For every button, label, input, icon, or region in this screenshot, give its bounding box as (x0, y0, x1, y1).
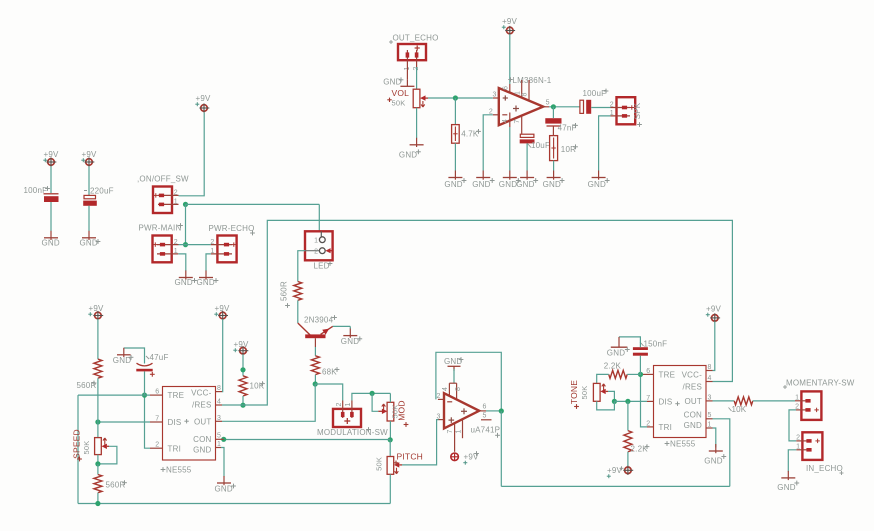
wire +9V to R 560R (97, 319, 99, 359)
capacitor C 100uF (output, polarized) (580, 100, 591, 114)
connector OUT_ECHO (389, 34, 439, 61)
pin label 3 (right) (708, 394, 712, 401)
svg-text:OUT: OUT (685, 397, 703, 406)
wire VOL bottom to ground (416, 108, 418, 139)
svg-text:150nF: 150nF (644, 339, 668, 348)
node junction TRE (right) (638, 372, 643, 377)
svg-text:+9V: +9V (44, 150, 60, 159)
pin stub DIS (7) (150, 421, 163, 423)
pin label 1 (PWR-MAIN) (174, 248, 178, 255)
pin label 1 (LM386) (514, 91, 521, 95)
svg-text:CON: CON (684, 411, 702, 420)
pin stub VCC (8) (216, 391, 223, 393)
wire SPK pin1 to ground (599, 116, 611, 171)
svg-text:LM386N-1: LM386N-1 (513, 76, 552, 85)
svg-text:50K: 50K (392, 98, 406, 107)
ground (IN_ECHO) (777, 471, 799, 492)
value label 2.2K (TRE) (604, 362, 622, 371)
pin label 2 (ON/OFF_SW) (174, 190, 178, 197)
wire junction to MOD wiper arm (372, 393, 378, 411)
value label 47uF (146, 353, 169, 362)
pin stub TRI (2) (150, 447, 163, 449)
svg-text:/RES: /RES (683, 383, 702, 392)
wire 2.2K to +9V (627, 452, 629, 466)
pin stub 2 (LM386 -IN) (493, 114, 499, 116)
svg-text:6: 6 (503, 86, 510, 90)
svg-text:5: 5 (217, 432, 221, 439)
pin label 4 (uA741) (442, 387, 449, 391)
svg-text:560R: 560R (280, 281, 289, 301)
pin label 3 (LM386) (493, 92, 497, 99)
pin label 6 (right) (646, 368, 650, 375)
wire 47uF to ground (124, 348, 145, 364)
wire 150nF to TRE junction (639, 356, 641, 375)
node junction TONE wiper (612, 399, 617, 404)
wire 150nF to ground (619, 337, 640, 347)
wire +9V to VCC pin 8 (221, 319, 224, 392)
value label 100uF (583, 89, 609, 98)
svg-text:1: 1 (174, 248, 178, 255)
ground (VOL) (399, 138, 424, 160)
svg-text:PWR-ECHO: PWR-ECHO (209, 224, 255, 233)
svg-text:7: 7 (447, 429, 454, 433)
svg-text:10K: 10K (732, 405, 747, 414)
wire Q1 emitter to ground (333, 326, 351, 329)
ground (47uF) (113, 348, 134, 365)
power +9V supply symbol (speed branch) (88, 304, 104, 320)
pin label 1 (OUT_ECHO) (404, 66, 411, 70)
wire TRE to left rail (78, 394, 150, 396)
wire TRI to TRE (right NE555) (641, 374, 648, 427)
svg-text:/RES: /RES (192, 400, 211, 409)
pin label 1 (right) (708, 422, 712, 429)
wire TONE bottom loop (597, 401, 615, 410)
wire CON rail (uA741 out to right NE555 CON) (501, 485, 730, 487)
value label 2.2K (DIS) (631, 444, 650, 453)
pin label 3 (217, 415, 221, 422)
wire 10R to ground (553, 161, 555, 171)
pin stub 6 (uA741 OUT) (479, 410, 486, 412)
wire LM386 -IN to ground (483, 115, 493, 171)
pin label 6 (uA741) (483, 403, 487, 410)
node A junction (68K / OUT / MOD-SW) (313, 381, 318, 386)
svg-text:560R: 560R (77, 381, 97, 390)
pin label 1 (IN_ECHO) (796, 444, 800, 451)
wire uA741 feedback (out to -IN) (436, 352, 501, 411)
svg-text:6: 6 (646, 368, 650, 375)
value label 560R (LED) (280, 281, 290, 308)
svg-text:47nF: 47nF (558, 123, 577, 132)
pin stub OUT (3) (216, 420, 223, 422)
connector IN_ECHO (796, 432, 822, 460)
pin label 2 (PWR-MAIN) (174, 239, 178, 246)
wire ground to uA741 power pins (453, 369, 455, 383)
wire DIS net (right) (614, 400, 647, 402)
ground (left NE555) (215, 476, 236, 494)
wire +9V to VCC pin 8 (right) (713, 321, 715, 370)
wire MOD top (389, 393, 391, 402)
part label MODULATION-SW (317, 427, 388, 437)
pin label 8 (LM386) (522, 92, 529, 96)
wire +9V to LM386 VS (509, 34, 511, 84)
node junction 10K top (240, 367, 245, 372)
ground (SPK) (588, 171, 610, 190)
power +9V supply symbol (10K pullup) (233, 340, 249, 355)
ground (right NE555) (704, 444, 726, 466)
svg-text:68K: 68K (322, 368, 337, 377)
svg-text:2.2K: 2.2K (604, 362, 622, 371)
pin stub CON (5) right (706, 418, 713, 420)
svg-text:NE555: NE555 (670, 440, 696, 449)
wire +9V to C 220uF (88, 167, 90, 196)
svg-text:+9V: +9V (215, 304, 231, 313)
wire 2.2K to TONE pot (597, 374, 609, 383)
value label 150nF (640, 339, 667, 348)
IC U1 NE555 (speed oscillator) (163, 387, 216, 461)
pin stub 5 (LM386 OUT) (543, 106, 549, 108)
connector ON/OFF_SW (137, 175, 189, 214)
node junction DIS (right) (625, 399, 630, 404)
svg-text:8: 8 (217, 385, 221, 392)
ground (PWR-ECHO) (197, 271, 219, 288)
part label TONE (569, 380, 579, 409)
value label 50K (SPEED) (82, 441, 91, 455)
resistor 2.2K (DIS) (624, 431, 632, 452)
svg-text:GND: GND (197, 278, 215, 287)
svg-text:GND: GND (341, 337, 359, 346)
svg-text:2: 2 (155, 442, 159, 449)
svg-text:,ON/OFF_SW: ,ON/OFF_SW (137, 175, 189, 184)
node junction SPEED bottom (95, 461, 100, 466)
pin label 1 (MODULATION-SW) (345, 402, 352, 406)
connector MODULATION-SW (333, 401, 361, 428)
value label 100nF (24, 186, 50, 195)
resistor 560R (speed top) (94, 359, 102, 378)
ground (150nF) (607, 337, 630, 358)
node B junction (MOD / CON / PITCH) (388, 437, 393, 442)
pin label 8 (uA741) (455, 387, 462, 391)
pin label 2 (PWR-ECHO) (210, 239, 214, 246)
svg-text:100uF: 100uF (583, 89, 607, 98)
pin stub 7 (LM386 bypass) (521, 116, 523, 134)
wire node B down to PITCH (389, 440, 391, 457)
svg-text:4: 4 (442, 387, 449, 391)
svg-text:IN_ECHO: IN_ECHO (806, 464, 843, 473)
potentiometer PITCH 50K (387, 457, 402, 475)
svg-text:2: 2 (314, 249, 318, 256)
ground (220uF) (80, 231, 101, 248)
pin label 2 (155, 442, 159, 449)
part label LM386N-1 (508, 76, 552, 85)
pin stub 7 (uA741 V+) (454, 423, 456, 452)
svg-text:560R: 560R (106, 481, 126, 490)
part label VOL (387, 88, 409, 102)
pin stub VCC (8) right (706, 370, 713, 372)
capacitor 100nF (44, 194, 59, 202)
svg-text:1: 1 (795, 394, 799, 401)
pin label 7 (uA741) (447, 429, 454, 433)
wire ON/OFF_SW pin1 down to PWR connectors (185, 204, 187, 244)
svg-text:4.7K: 4.7K (461, 129, 479, 138)
wire OUT to junction (486, 410, 501, 412)
resistor 68K (311, 356, 319, 375)
svg-text:5: 5 (483, 413, 487, 420)
node junction LM386 out (551, 104, 556, 109)
wire 100nF to ground (50, 202, 52, 231)
connector MOMENTARY-SW (783, 378, 855, 420)
svg-text:4: 4 (217, 399, 221, 406)
pin label 1 (SPK) (610, 110, 614, 117)
node junction LM386 input (453, 95, 458, 100)
svg-text:50K: 50K (374, 457, 383, 471)
pin label 5 (uA741) (483, 413, 487, 420)
node junction ON/OFF_SW pin1 (183, 202, 188, 207)
pin stub 2 (uA741 -IN) (438, 398, 444, 400)
pin stub TRE (6) right (641, 373, 654, 375)
resistor 560R (LED) (294, 282, 302, 301)
ground (10R) (543, 171, 565, 190)
wire TONE wiper to DIS (608, 391, 614, 401)
svg-text:4: 4 (708, 375, 712, 382)
wire PWR-ECHO pin1 to ground (206, 254, 211, 271)
svg-text:GND: GND (215, 485, 233, 494)
pin stubs 4/8 (uA741) (449, 383, 456, 399)
pin label 2 (OUT_ECHO) (413, 66, 420, 70)
wire 10K to MOMENTARY-SW pin1 (753, 400, 795, 402)
wire +9V to R 10K (242, 354, 244, 376)
connector PWR-ECHO (209, 224, 255, 262)
node junction TRE (left) (142, 393, 147, 398)
pin label 5 (LM386) (546, 99, 550, 106)
op-amp U3 LM386N-1 (499, 88, 543, 125)
svg-text:1: 1 (455, 429, 462, 433)
value label 560R (speed top) (77, 381, 97, 390)
svg-text:GND: GND (444, 357, 462, 366)
ground (uA741 top) (444, 357, 463, 371)
svg-text:2: 2 (210, 239, 214, 246)
node junction MOD wiper (370, 391, 375, 396)
value label 10K (momentary) (729, 405, 747, 414)
node junction PWR pin2 (183, 242, 188, 247)
part label 2N3904 (304, 315, 337, 324)
svg-text:3: 3 (493, 92, 497, 99)
pin label 2 (uA741) (437, 393, 441, 400)
pin stub GND (1) right (706, 427, 713, 429)
wire node A down to NE555 OUT (222, 384, 315, 421)
svg-text:5: 5 (708, 412, 712, 419)
svg-text:3: 3 (708, 394, 712, 401)
svg-text:TRI: TRI (659, 423, 673, 432)
svg-text:2N3904: 2N3904 (304, 315, 334, 324)
svg-text:1: 1 (796, 444, 800, 451)
svg-text:GND: GND (777, 483, 795, 492)
power +9V supply symbol (left NE555 VCC) (214, 304, 230, 320)
svg-text:VOL: VOL (392, 88, 410, 98)
svg-text:MOMENTARY-SW: MOMENTARY-SW (786, 378, 855, 387)
wire PITCH bottom to bottom rail (389, 474, 391, 503)
pin label 4 (LM386) (502, 119, 509, 123)
pin stubs gain 1/8 (LM386) (522, 80, 529, 101)
svg-text:50K: 50K (580, 386, 589, 400)
value label 50K (TONE) (580, 386, 589, 400)
wire MOMENTARY-SW pin2 to IN_ECHO pin2 (789, 410, 796, 441)
value label 50K (VOL) (392, 98, 406, 107)
svg-text:1: 1 (174, 199, 178, 206)
potentiometer VOL 50K (413, 89, 428, 108)
wire 2.2K to TRE junction (627, 373, 641, 375)
wire 10uF to ground (526, 143, 528, 170)
connector PWR-MAIN (139, 223, 183, 262)
wire PWR-MAIN pin2 to PWR-ECHO pin2 (179, 244, 211, 246)
pin stub TRE (6) (150, 394, 163, 396)
svg-text:+9V: +9V (89, 304, 105, 313)
wire DIS junction to SPEED pot (97, 422, 99, 438)
wire uA741 OUT down to CON rail (500, 411, 502, 486)
part label SPEED (71, 429, 82, 461)
svg-text:DIS: DIS (168, 418, 182, 427)
svg-text:8: 8 (455, 387, 462, 391)
svg-text:TRE: TRE (168, 391, 185, 400)
wire DIS to speed network (98, 421, 150, 423)
svg-text:+9V: +9V (196, 94, 212, 103)
wire 560R to DIS junction (97, 378, 99, 422)
pin stub 3 (uA741 +IN) (439, 419, 445, 421)
svg-text:+9V: +9V (706, 305, 722, 314)
capacitor C 10uF (bypass) (520, 134, 535, 143)
part label uA741P (471, 425, 501, 437)
wire reset net (both NE555 /RES) (243, 220, 732, 405)
svg-text:8: 8 (522, 92, 529, 96)
svg-text:GND: GND (607, 349, 625, 358)
svg-text:GND: GND (42, 239, 60, 248)
part label MOD (396, 400, 408, 427)
pin label 1 (PWR-ECHO) (210, 248, 214, 255)
part label NE555 (right) (665, 440, 696, 449)
svg-text:10uF: 10uF (531, 141, 550, 150)
svg-text:GND: GND (499, 180, 517, 189)
ground (PWR-MAIN) (175, 271, 197, 288)
pin label 3 (uA741) (437, 413, 441, 420)
svg-text:6: 6 (483, 403, 487, 410)
svg-text:1: 1 (708, 422, 712, 429)
resistor 10K (momentary) (734, 397, 753, 405)
svg-text:1: 1 (514, 91, 521, 95)
power +9V supply symbol (DIS 2.2K) (607, 466, 633, 479)
value label 68K (322, 367, 339, 376)
power +9V supply symbol (right NE555 VCC) (706, 305, 722, 323)
value label 10uF (528, 141, 551, 150)
value label 10K (pullup) (250, 381, 265, 390)
power +9V supply symbol (LM386) (502, 17, 518, 35)
svg-text:GND: GND (704, 457, 722, 466)
pin stub OUT (3) right (706, 400, 713, 402)
resistor 10K (reset pullup) (239, 376, 247, 396)
svg-text:8: 8 (708, 364, 712, 371)
wire MOD bottom to node B (389, 421, 391, 440)
part label IN_ECHO (806, 464, 844, 475)
svg-text:GND: GND (588, 180, 606, 189)
wire LED pin2 to R 560R (298, 251, 305, 282)
part label NE555 (left) (161, 466, 192, 475)
pin label 1 (MOMENTARY-SW) (795, 394, 799, 401)
potentiometer TONE 50K (593, 383, 608, 401)
pin label 2 (right) (646, 420, 650, 427)
wire 100uF to SPK pin2 (591, 107, 610, 109)
svg-text:3: 3 (217, 415, 221, 422)
svg-text:VCC-: VCC- (191, 388, 211, 397)
wire 68K to node A (314, 375, 316, 384)
power +9V supply symbol (uA741) (450, 451, 479, 465)
wire IN_ECHO pin1 to ground (788, 450, 796, 472)
wire Q1 base to R 68K (314, 347, 316, 356)
wire /RES pin4 run (222, 404, 243, 406)
svg-text:CON: CON (193, 435, 211, 444)
value label 50K (PITCH) (374, 457, 383, 471)
wire GND pin1 (left NE555) to ground (221, 448, 224, 477)
svg-text:1: 1 (345, 402, 352, 406)
svg-text:GND: GND (175, 278, 193, 287)
svg-text:TRI: TRI (168, 444, 182, 453)
wire +9V down to ON/OFF_SW pin 2 (179, 113, 205, 196)
svg-text:GND: GND (399, 150, 417, 159)
resistor 560R (speed bottom) (94, 475, 102, 493)
wire SPEED junction to R 560R bottom (97, 464, 99, 475)
pin label 4 (right) (708, 375, 712, 382)
node junction uA741 OUT (499, 408, 504, 413)
pin label 8 (217, 385, 221, 392)
ground (4.7K) (444, 171, 466, 190)
svg-text:GND: GND (444, 180, 462, 189)
node junction CON stub (left NE555) (221, 437, 226, 442)
svg-text:2: 2 (796, 435, 800, 442)
svg-text:5: 5 (546, 99, 550, 106)
svg-text:PITCH: PITCH (397, 451, 424, 461)
wire GND pin1 to ground (right NE555) (713, 428, 716, 448)
svg-text:47uF: 47uF (150, 353, 169, 362)
svg-text:GND: GND (472, 180, 490, 189)
svg-text:DIS: DIS (659, 398, 673, 407)
wire SPEED bottom (97, 455, 99, 464)
pin label 5 (right) (708, 412, 712, 419)
value label 4.7K (461, 129, 481, 138)
svg-text:1: 1 (217, 441, 221, 448)
wire VOL wiper to LM386 +IN (428, 97, 493, 99)
node junction /RES (left) (240, 403, 245, 408)
wire input junction to R 4.7K (454, 98, 456, 125)
capacitor C 47uF (polarized) (136, 363, 154, 377)
pin stub TRI (2) right (647, 426, 654, 428)
pin label 2 (MODULATION-SW) (336, 402, 343, 406)
svg-text:+9V: +9V (234, 340, 250, 349)
wire SPEED wiper loop (98, 446, 117, 464)
wire 47uF to TRE junction (144, 371, 146, 395)
IC pin names (left NE555) (168, 388, 212, 454)
svg-text:SPEED: SPEED (71, 429, 81, 459)
capacitor C 220uF (polarized) (83, 195, 97, 205)
pin stub CON (5) (216, 438, 224, 440)
pin label 2 (MOMENTARY-SW) (795, 404, 799, 411)
wire PITCH wiper to uA741 +IN (402, 420, 439, 465)
power +9V supply symbol (main switch) (195, 94, 211, 113)
pin label 8 (right) (708, 364, 712, 371)
wire LM386 OUT to junction (549, 106, 580, 108)
op-amp U2 uA741P (444, 393, 479, 428)
svg-text:LED: LED (314, 262, 330, 271)
svg-text:2: 2 (174, 239, 178, 246)
wire LM386 pin4 to ground (509, 127, 511, 171)
wire 47nF to R 10R (552, 126, 554, 136)
svg-text:GND: GND (193, 445, 211, 454)
